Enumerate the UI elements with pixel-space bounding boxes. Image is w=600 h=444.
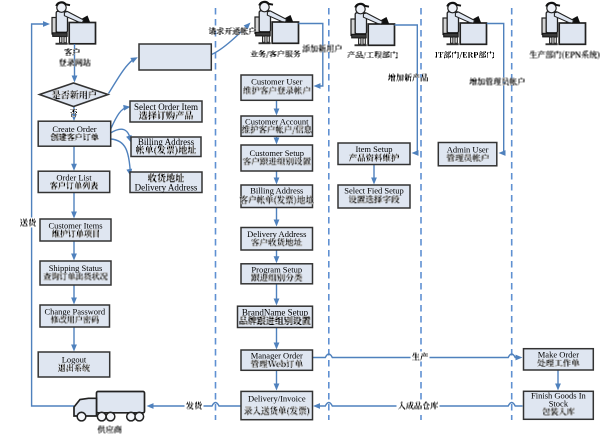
lane separator 2 <box>328 8 330 420</box>
box CJK text: 处理工作单 <box>537 359 579 367</box>
box: Change Password <box>40 305 110 327</box>
wire: engineering actor to Item Setup (add new product) <box>395 25 418 153</box>
label: request to open account <box>209 27 256 35</box>
label: add admin account <box>470 78 525 86</box>
svg-text:Make Order: Make Order <box>538 350 579 360</box>
label: into finished goods stock <box>397 401 440 411</box>
box CJK text: 设置选择字段 <box>349 195 400 203</box>
label: ship goods <box>185 401 204 411</box>
svg-text:Admin User: Admin User <box>447 145 489 155</box>
box: Admin User <box>438 143 497 166</box>
wire: Create Order to Select Order Item curve <box>111 107 128 130</box>
svg-text:Billing Address: Billing Address <box>138 137 195 147</box>
wire: column1 vertical arrows <box>73 146 75 165</box>
svg-text:Logout: Logout <box>62 355 87 365</box>
wire: sales actor to Customer User (add new user) <box>299 24 323 87</box>
svg-text:Delivery Address: Delivery Address <box>135 182 198 192</box>
wire: diamond no-branch down to Create Order <box>73 107 75 116</box>
box CJK text: 客户跟进组别设置 <box>243 157 311 165</box>
box: Delivery/Invoice <box>241 391 313 419</box>
box CJK text: 修改用户密码 <box>51 316 99 324</box>
decision: new user? <box>40 83 109 107</box>
box CJK text: 维护客户帐户/信息 <box>242 125 312 134</box>
svg-text:Order List: Order List <box>56 172 92 182</box>
lane separator 3 <box>420 8 422 420</box>
label: supplier <box>98 426 122 434</box>
box CJK text: 管理Web订单 <box>251 360 303 368</box>
svg-text:Create Order: Create Order <box>52 124 96 134</box>
box CJK text: 维护客户登录帐户 <box>243 86 310 94</box>
box: Customer Items <box>40 219 111 241</box>
box CJK text: 创建客户订单 <box>51 133 99 141</box>
wire: Finish Goods to Delivery/Invoice (into stock) <box>319 403 523 407</box>
box: request account box (blank) <box>139 44 211 70</box>
box CJK text: 跟进组别分类 <box>251 274 302 282</box>
wire: Item Setup to Select Fied Setup <box>373 165 375 179</box>
box CJK text: 客户订单列表 <box>50 182 98 190</box>
box: Finish Goods In Stock <box>524 391 594 419</box>
box: Manager Order <box>241 350 313 370</box>
wire: Delivery/Invoice to truck (ship goods) <box>152 403 241 407</box>
label: production <box>411 352 430 362</box>
box CJK text: 产品资料维护 <box>349 154 399 162</box>
box: Customer Account <box>241 116 313 136</box>
wire: Manager Order to Make Order (production) <box>313 354 517 358</box>
wire: column2 vertical arrows <box>276 100 278 110</box>
label: add new product <box>388 74 428 82</box>
svg-text:BrandName Setup: BrandName Setup <box>242 307 309 317</box>
box CJK text: 管理员帐户 <box>447 154 489 162</box>
box CJK text: 帐单(发票)地址 <box>136 145 196 155</box>
wire: request box to sales actor (request account) <box>212 25 249 55</box>
box CJK text: 查询订单出货状况 <box>44 272 108 280</box>
svg-text:Manager Order: Manager Order <box>251 351 303 361</box>
svg-text:Change Password: Change Password <box>44 306 105 316</box>
truck: supplier delivery <box>74 392 145 417</box>
box: Select Order Item <box>130 101 202 122</box>
box CJK text: 客户帐单(发票)地址 <box>240 195 314 205</box>
actor: customer <box>52 2 96 44</box>
label: no <box>70 109 77 117</box>
wire: Make Order to Finish Goods In Stock <box>557 370 559 385</box>
box: Program Setup <box>241 264 313 284</box>
svg-text:Shipping Status: Shipping Status <box>49 263 103 273</box>
box: Shipping Status <box>40 261 111 285</box>
svg-text:Customer User: Customer User <box>251 77 302 87</box>
wire: IT actor to Admin User (add admin account) <box>487 24 504 154</box>
actor: production <box>542 3 586 45</box>
svg-text:Customer Setup: Customer Setup <box>250 148 305 158</box>
svg-text:Billing Address: Billing Address <box>250 186 303 196</box>
actor: product/engineering <box>351 4 395 46</box>
box: Order List <box>38 171 110 192</box>
box: Create Order <box>38 121 111 146</box>
label: log on website <box>60 59 91 67</box>
actor: sales/customer service <box>255 2 299 44</box>
wire: diamond yes-branch curve to request box <box>109 59 135 94</box>
box: Delivery Address <box>241 228 313 251</box>
box CJK text: 录入送货单(发票) <box>244 406 309 416</box>
box: Logout <box>38 352 110 377</box>
svg-text:Stock: Stock <box>549 398 569 408</box>
box CJK text: 维护订单项目 <box>52 230 99 238</box>
wire: Create Order to Billing Address curve <box>111 129 131 139</box>
label: sales/customer service <box>251 50 301 58</box>
box CJK text: 客户收货地址 <box>251 238 302 246</box>
label: product/engineering dept <box>348 51 398 59</box>
label: new user? <box>52 90 96 99</box>
box: Billing Address (left) <box>131 137 201 157</box>
box CJK text: 包装入库 <box>542 408 574 416</box>
wire: Create Order to Delivery Address curve <box>111 139 131 172</box>
wire: customer actor down to decision diamond <box>74 44 76 77</box>
box CJK text: 品牌跟进组别设置 <box>240 316 311 325</box>
svg-text:Customer Items: Customer Items <box>48 220 102 230</box>
svg-text:Program Setup: Program Setup <box>251 264 302 274</box>
svg-text:Delivery/Invoice: Delivery/Invoice <box>248 393 306 403</box>
box: Make Order <box>524 349 594 370</box>
box: Billing Address <box>241 185 313 208</box>
label: deliver goods <box>19 218 38 228</box>
svg-text:Item Setup: Item Setup <box>355 144 392 154</box>
box: Customer Setup <box>241 145 313 171</box>
svg-text:Delivery Address: Delivery Address <box>247 229 306 239</box>
actor: IT/ERP <box>443 3 487 45</box>
box: BrandName Setup <box>238 306 313 327</box>
svg-text:Select Fied Setup: Select Fied Setup <box>344 186 404 196</box>
box: Select Fied Setup <box>338 185 410 208</box>
label: production dept (EPN) <box>530 51 600 60</box>
box: Item Setup <box>338 143 410 165</box>
box CJK text: 选择订购产品 <box>139 111 193 120</box>
svg-text:Select Order Item: Select Order Item <box>134 102 198 112</box>
lane separator 1 <box>215 8 217 420</box>
label: customer <box>65 48 80 56</box>
wire: truck to customer actor (deliver goods) <box>32 24 74 406</box>
box: Delivery Address (left) <box>130 172 202 193</box>
box: Customer User <box>241 75 313 100</box>
label: IT/ERP dept <box>435 51 494 59</box>
box CJK text: 退出系统 <box>58 364 90 372</box>
svg-text:Customer Account: Customer Account <box>245 117 309 127</box>
box CJK text: 收货地址 <box>148 173 184 182</box>
lane separator 4 <box>511 8 513 420</box>
label: add new user <box>303 45 342 53</box>
